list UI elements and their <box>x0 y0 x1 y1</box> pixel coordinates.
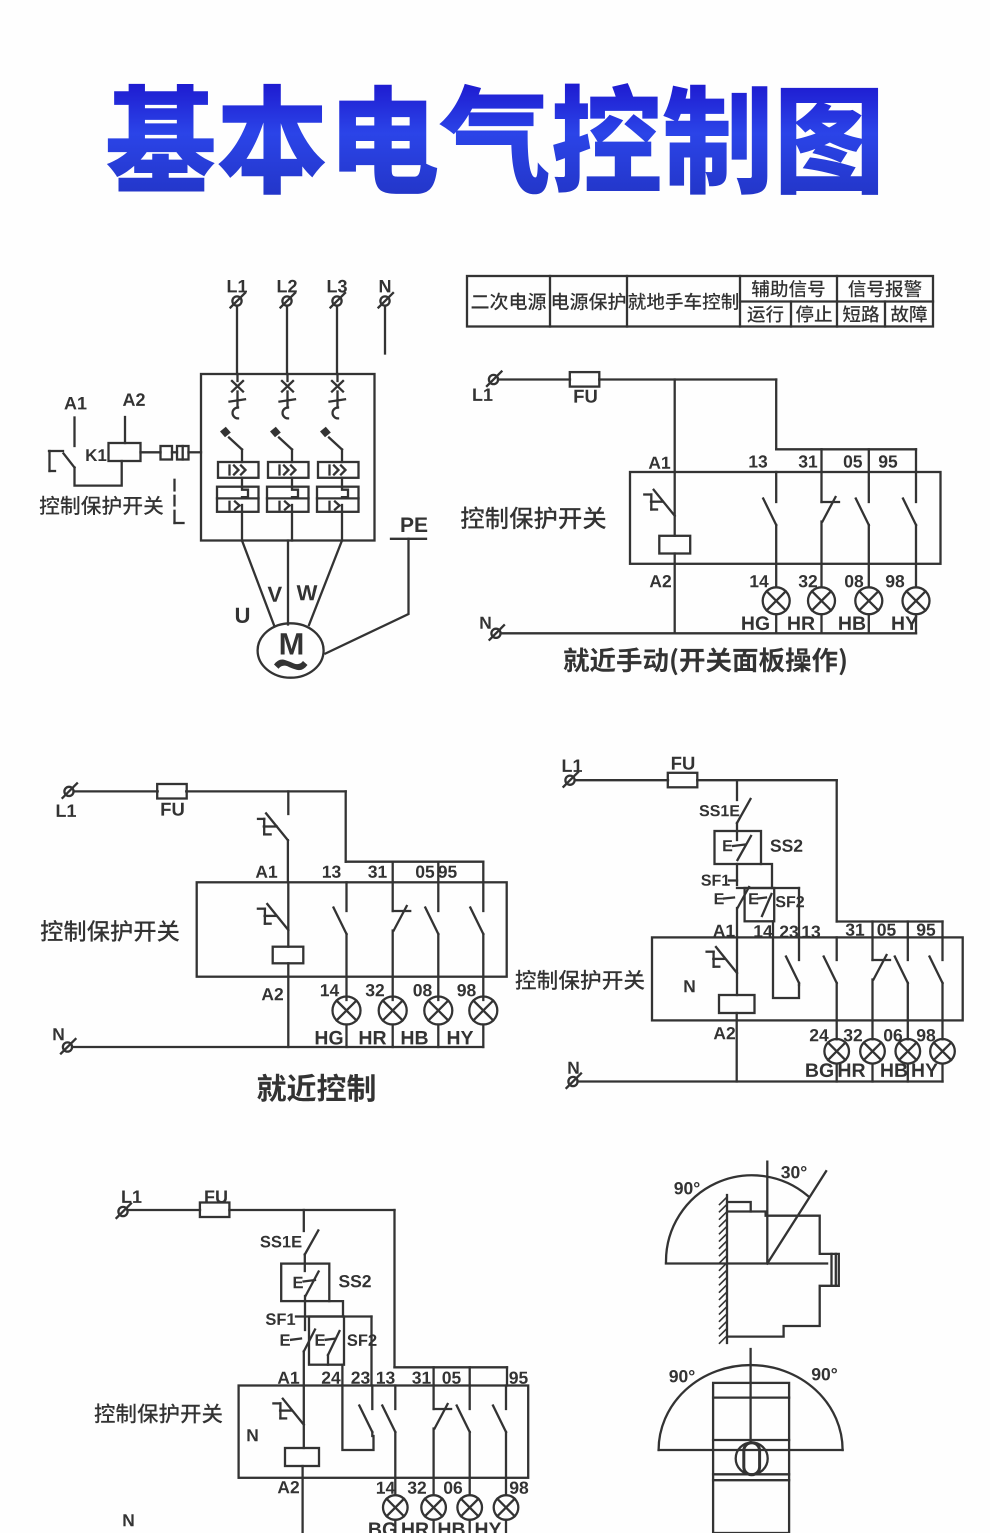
label 13 (local) <box>323 866 341 878</box>
caption 就近手动(开关面板操作) <box>564 647 846 675</box>
label BG (remote) <box>369 1522 396 1533</box>
isolator tick L1 <box>230 399 246 401</box>
wire corner drop to rail <box>775 380 777 450</box>
fuse FU (manual ckt) <box>570 372 600 387</box>
wire L1 to fuse (local) <box>74 790 158 792</box>
wire 23 drop (remote) <box>370 1317 372 1386</box>
breaker contact X L3 <box>332 381 343 392</box>
arc dome (front view) <box>659 1365 843 1450</box>
contact 95-98 (local) <box>470 882 483 1000</box>
table cell 二次电源 <box>472 293 546 311</box>
contact 31-32 <box>822 472 840 587</box>
wire rail stub 31 <box>820 449 822 472</box>
wire L1 to fuse (panel) <box>575 779 668 781</box>
lamp BG (panel) <box>824 1039 849 1064</box>
table cell 电源保护 <box>553 293 625 311</box>
label 31 (local) <box>368 866 387 878</box>
lamp HY (panel) <box>930 1039 955 1064</box>
switch SF1 (panel) <box>715 887 749 908</box>
motor M <box>258 623 324 677</box>
label 31 (panel) <box>846 924 865 936</box>
manual isolating switch (local) <box>258 813 288 840</box>
terminal L3 <box>331 293 346 308</box>
overcurrent release box I&gt;&gt; L2 <box>268 462 309 478</box>
contact 13-24 (panel) <box>824 937 837 1039</box>
contact 05-06 (panel) <box>895 937 908 1039</box>
control box (manual ckt) <box>630 472 941 564</box>
label 13 <box>749 455 767 467</box>
knob circle (front view) <box>736 1443 768 1475</box>
wire A1 in box <box>674 472 676 536</box>
wire pole L1 mid <box>241 478 243 487</box>
label 14 (remote) <box>377 1482 395 1494</box>
wire coil to A2 <box>674 554 676 634</box>
label N in box (panel) <box>684 980 694 992</box>
label E in SS2 (panel) <box>723 840 732 851</box>
wire pole L2 entry <box>286 374 288 381</box>
wire L1 to fuse <box>498 378 570 380</box>
thermal/overload release box L3 <box>317 487 359 512</box>
label 95 (panel) <box>917 924 935 936</box>
label FU (remote) <box>205 1191 227 1204</box>
arc 90-degree travel (side view) <box>666 1175 808 1261</box>
wire body line 4 (front view) <box>713 1479 789 1481</box>
handle body (front view) <box>713 1383 789 1533</box>
label HB (panel) <box>881 1064 907 1077</box>
wire rail stub 31 (panel) <box>871 922 873 938</box>
label N <box>380 280 391 292</box>
mounting wall hatched <box>720 1195 728 1343</box>
lamp HR (local) <box>379 997 407 1025</box>
wire rail stub 31 (local) <box>392 862 394 883</box>
wire lamp HY to N <box>915 614 917 633</box>
wire coil to plug <box>141 451 161 453</box>
knob slot (front view) <box>744 1443 760 1475</box>
label 95 (local) <box>438 866 456 878</box>
contact 95-98 (panel) <box>930 937 943 1039</box>
wire corner drop (remote) <box>393 1210 395 1367</box>
lamp HG <box>763 587 790 614</box>
wire 30deg line <box>767 1171 826 1263</box>
caption 就近控制 <box>257 1074 374 1102</box>
terminal L1 (remote) <box>117 1204 132 1219</box>
coil K (remote) <box>285 1448 319 1466</box>
switch box SF2 (panel) <box>745 888 775 921</box>
wire A1 in box (remote) <box>303 1386 305 1449</box>
wire fuse to corner <box>599 378 776 380</box>
label PE <box>401 518 427 533</box>
label 14 (local) <box>321 984 339 996</box>
trip linkage arrow L3 <box>320 427 342 462</box>
lamp HR (remote) <box>421 1495 446 1520</box>
contact 95-98 <box>903 472 916 587</box>
wire coil to A2 (panel) <box>736 1013 738 1082</box>
hook contact L2 <box>283 400 288 418</box>
fuse FU (local) <box>157 784 187 799</box>
label L1 (remote ckt) <box>122 1191 141 1203</box>
label 31 <box>799 455 818 467</box>
wire fuse to corner (local) <box>186 790 346 792</box>
wire 24-23 U loop (remote) <box>342 1386 373 1451</box>
lamp HB <box>855 587 882 614</box>
lamp HB (remote) <box>457 1495 482 1520</box>
label SS2 (panel) <box>771 840 803 852</box>
label 24 (remote) <box>322 1372 341 1384</box>
label 08 (local) <box>414 984 432 996</box>
terminal N <box>379 293 394 308</box>
label HB <box>839 617 865 630</box>
label SF1 (remote) <box>266 1313 295 1325</box>
label HR (panel) <box>839 1064 866 1077</box>
label 06 (remote) <box>444 1482 462 1494</box>
table cell 辅助信号 <box>752 280 825 297</box>
wire rail stub 95 (local) <box>482 862 484 883</box>
label N (manual ckt) <box>480 617 490 629</box>
fuse FU (remote) <box>200 1203 230 1218</box>
wire body line 2 (front view) <box>713 1439 789 1441</box>
wire body line 1 (front view) <box>713 1396 789 1398</box>
wire aux rail (panel) <box>837 920 943 922</box>
wire SS2 to SF1 (remote) <box>304 1296 306 1330</box>
table cell 停止 <box>796 305 832 322</box>
label 95 (remote) <box>509 1372 527 1384</box>
wire corner drop (local) <box>345 791 347 861</box>
wire N drop <box>384 306 386 354</box>
label L2 <box>278 280 297 293</box>
wire lamp HY stub (local) <box>482 1025 484 1048</box>
wire lamp HR stub (panel) <box>871 1064 873 1082</box>
mechanical link dashed <box>175 480 184 523</box>
label A1 (local) <box>256 866 277 878</box>
label 30deg <box>781 1166 806 1178</box>
wire aux rail (remote) <box>395 1366 508 1368</box>
label 23 (panel) <box>780 926 798 938</box>
table cell 故障 <box>891 305 927 322</box>
breaker contact X L2 <box>282 381 293 392</box>
wire pole L3 entry <box>336 374 338 381</box>
wire SS2 bypass step (remote) <box>329 1301 343 1316</box>
label 14 <box>750 575 768 587</box>
wire SS feeder (panel) <box>736 780 738 800</box>
wire SS1E to SS2 (remote) <box>304 1255 306 1272</box>
wire N rail (local) <box>72 1046 483 1048</box>
wire SS2 bypass step (panel) <box>761 864 772 888</box>
wire SF2 top link (panel) <box>737 887 799 889</box>
label HR (local) <box>360 1031 387 1044</box>
wire N rail (panel) <box>578 1080 943 1082</box>
wire L2 drop <box>286 306 288 374</box>
terminal L1 (manual ckt) <box>487 372 502 387</box>
wire lamp BG stub (remote) <box>394 1520 396 1533</box>
label A1 <box>64 397 86 409</box>
label 98 <box>886 575 904 587</box>
label L1 (local ckt) <box>57 805 76 817</box>
lamp HY (remote) <box>494 1495 519 1520</box>
hook contact L3 <box>333 400 338 418</box>
thermal/overload release box L2 <box>267 487 309 512</box>
label W <box>297 585 318 600</box>
wire dome chord (front view) <box>659 1449 843 1451</box>
terminal L1 (local ckt) <box>63 783 78 798</box>
wire 14 drop (panel) <box>772 921 774 937</box>
table cell 短路 <box>843 305 879 322</box>
wire lamp HG stub (local) <box>345 1025 347 1048</box>
label 23 (remote) <box>351 1372 369 1384</box>
label HY (remote) <box>476 1523 501 1533</box>
label SF2 (panel) <box>776 896 804 907</box>
control box (panel) <box>652 937 963 1020</box>
label 控制保护开关 top-left <box>40 496 164 515</box>
label 24 (panel) <box>810 1029 829 1041</box>
wire rail stub 31 (remote) <box>432 1367 434 1385</box>
wire PE bar <box>391 538 426 540</box>
manual switch (panel) <box>707 947 737 973</box>
label HY (local) <box>448 1031 473 1044</box>
label 控制保护开关 (local) <box>41 920 179 942</box>
wire pole L2 mid <box>291 478 293 487</box>
manual switch (remote) <box>273 1399 303 1425</box>
wire body line 3 (front view) <box>713 1473 789 1475</box>
label A2 (local) <box>262 988 283 1000</box>
wire A1 in box (local) <box>287 882 289 946</box>
contact 13-14 (remote) <box>382 1386 395 1496</box>
wire A1 feeder drop <box>674 380 676 473</box>
label A2 (panel) <box>714 1027 735 1039</box>
wire pole L3 mid <box>341 478 343 487</box>
lamp HG (local) <box>333 997 361 1025</box>
contact 05-06 (remote) <box>457 1386 470 1496</box>
terminal N (local) <box>61 1039 76 1054</box>
switch box SF2 (remote) <box>309 1317 344 1365</box>
label 90deg right (front view) <box>812 1368 837 1380</box>
label N (local) <box>53 1028 63 1040</box>
wire aux rail (local) <box>346 861 484 863</box>
switch box SS2 (remote) <box>281 1264 329 1302</box>
label 32 (panel) <box>844 1029 862 1041</box>
trip switch K1 actuator <box>49 451 63 471</box>
table cell 信号报警 <box>848 280 921 297</box>
fuse FU (panel) <box>668 773 698 788</box>
wire A1 feeder (local) <box>287 791 289 814</box>
switch SF2 (remote) <box>316 1331 340 1365</box>
label 95 <box>879 455 897 467</box>
wire SS2 to SF1 (panel) <box>736 864 738 885</box>
label FU (manual ckt) <box>574 390 596 403</box>
contact 23 (remote) <box>359 1386 372 1437</box>
wire K1 loop <box>75 461 122 486</box>
label HB (local) <box>402 1031 428 1044</box>
isolator tick L3 <box>330 399 346 401</box>
label L3 <box>328 280 347 293</box>
wire fuse to corner (panel) <box>697 779 837 781</box>
wire rail stub 05 (panel) <box>907 922 909 938</box>
terminal L2 <box>281 293 296 308</box>
lamp BG (remote) <box>383 1495 408 1520</box>
lamp HR <box>808 587 835 614</box>
wire SF2 top link (remote) <box>296 1315 372 1317</box>
wire SF1 tick (panel) <box>729 879 737 881</box>
switch SF2 (panel) <box>749 893 771 916</box>
label 32 (remote) <box>408 1482 426 1494</box>
wire L3 drop <box>336 306 338 374</box>
label HY (panel) <box>912 1064 937 1077</box>
label SF2 (remote) <box>347 1334 376 1346</box>
label 06 (panel) <box>884 1029 902 1041</box>
wire lamp HY stub (remote) <box>505 1520 507 1533</box>
switch box SS2 (panel) <box>715 831 762 864</box>
label A2 <box>123 393 145 406</box>
wire pole L1 entry <box>236 374 238 381</box>
wire L1 to fuse (remote) <box>128 1209 201 1211</box>
wire lamp HR stub (remote) <box>432 1520 434 1533</box>
wire coil to A2 (remote) <box>301 1466 303 1533</box>
wire SS feeder (remote) <box>303 1210 305 1231</box>
lamp HY (local) <box>469 997 497 1025</box>
wire lamp HY stub (panel) <box>941 1064 943 1082</box>
control box (local) <box>197 882 507 976</box>
thermal/overload release box L1 <box>217 487 259 512</box>
contact 13-14 <box>763 472 776 587</box>
label 90deg (side view) <box>674 1182 699 1194</box>
label N in box (remote) <box>247 1429 257 1441</box>
label 13 (remote) <box>377 1372 395 1384</box>
wire 14-23 U loop (panel) <box>773 937 799 998</box>
label SS2 (remote) <box>339 1275 371 1287</box>
label HR (remote) <box>402 1523 429 1533</box>
label K1 <box>86 449 106 461</box>
overcurrent release box I&gt;&gt; L3 <box>318 462 359 478</box>
label 13 (panel) <box>802 926 820 938</box>
isolator tick L2 <box>280 399 296 401</box>
control box (remote) <box>239 1386 529 1478</box>
label 90deg left (front view) <box>669 1370 694 1382</box>
wire lamp BG stub (panel) <box>836 1064 838 1082</box>
label 05 (panel) <box>878 924 896 936</box>
label 05 <box>844 455 862 467</box>
wire motor V <box>287 541 289 625</box>
coil K (manual ckt) <box>659 536 690 554</box>
trip switch K1 blade <box>64 454 75 468</box>
lamp HR (panel) <box>860 1039 885 1064</box>
wire L1 drop <box>236 306 238 374</box>
table cell 运行 <box>748 305 784 322</box>
wire N rail (manual ckt) <box>501 632 917 634</box>
title 基本电气控制图 <box>107 83 878 195</box>
label 05 (remote) <box>443 1372 461 1384</box>
contact 05-08 <box>856 472 869 587</box>
label HB (remote) <box>439 1523 465 1533</box>
label 32 <box>799 575 817 587</box>
wire motor W <box>309 541 342 626</box>
coil K1 <box>109 443 141 461</box>
contact 31-32 (remote) <box>434 1386 452 1496</box>
connector plug symbol <box>161 446 202 460</box>
wire A1 in box (panel) <box>736 937 738 995</box>
breaker box <box>201 374 375 541</box>
wire centerline (side view) <box>766 1162 768 1264</box>
label FU (local) <box>161 803 183 816</box>
wire rail stub 95 (panel) <box>941 922 943 938</box>
label U <box>236 608 249 623</box>
label 控制保护开关 (manual ckt) <box>461 507 606 530</box>
lamp HY <box>903 587 930 614</box>
label HG <box>742 616 769 630</box>
wire fuse to corner (remote) <box>229 1209 394 1211</box>
coil K (local) <box>273 947 304 964</box>
wire corner drop (panel) <box>836 780 838 921</box>
wire lamp HR to N <box>820 614 822 633</box>
contact 31-32 (local) <box>393 882 411 1000</box>
manual switch (manual ckt) <box>644 490 674 516</box>
label 98 (panel) <box>917 1029 935 1041</box>
wire lamp HB to N <box>868 614 870 633</box>
terminal N (panel) <box>567 1074 582 1089</box>
wire aux rail <box>776 448 916 450</box>
contact 23 (panel) <box>786 937 799 985</box>
contact 31-32 (panel) <box>873 937 891 1039</box>
table cell 就地手车控制 <box>628 293 738 311</box>
coil K (panel) <box>719 995 755 1013</box>
label BG (panel) <box>806 1063 833 1077</box>
wire pole L1 <box>236 392 238 401</box>
switch SS2 (remote) <box>294 1272 319 1297</box>
label L1 (panel ckt) <box>563 760 582 772</box>
wire SF1 to A1 (remote) <box>303 1352 305 1386</box>
switch SS2 blade (panel) <box>733 836 751 860</box>
handle profile outline (side view) <box>729 1202 839 1337</box>
wire pole L3 <box>336 392 338 401</box>
label A1 (panel) <box>713 925 734 937</box>
wire coil to A2 (local) <box>287 963 289 1047</box>
wire pole L2 exit <box>291 512 293 541</box>
wire SF1 to A1 (panel) <box>736 908 738 937</box>
lamp HB (local) <box>424 997 452 1025</box>
wire switch to box (local) <box>287 840 289 882</box>
wire pole L3 exit <box>341 512 343 541</box>
breaker contact X L1 <box>232 381 243 392</box>
terminal L1 <box>231 293 246 308</box>
wire SS1E to SS2 (panel) <box>736 823 738 840</box>
wire PE to motor <box>326 539 409 654</box>
switch SS1E (remote) <box>305 1231 319 1255</box>
hook contact L1 <box>233 400 238 418</box>
wire rail stub 05 (local) <box>437 862 439 883</box>
wire A1 drop <box>73 418 75 447</box>
label 31 (remote) <box>412 1372 431 1384</box>
overcurrent release box I&gt;&gt; L1 <box>218 462 259 478</box>
label 98 (local) <box>457 984 475 996</box>
label A2 (remote) <box>278 1481 299 1493</box>
wire lamp HB stub (remote) <box>469 1520 471 1533</box>
wire pole L1 exit <box>241 512 243 541</box>
label HY <box>892 617 917 630</box>
label V <box>268 587 282 602</box>
wire lamp HR stub (local) <box>392 1025 394 1048</box>
label 14 (panel) <box>754 925 772 937</box>
wire lamp HB stub (panel) <box>907 1064 909 1082</box>
label HG (local) <box>316 1031 343 1045</box>
label 98 (remote) <box>510 1482 528 1494</box>
label HR <box>788 617 815 630</box>
wire 23 drop (panel) <box>798 888 800 937</box>
trip linkage arrow L2 <box>270 427 292 462</box>
label 32 (local) <box>366 984 384 996</box>
label A1 (manual ckt) <box>649 457 670 469</box>
wire rail stub 05 (remote) <box>469 1367 471 1385</box>
label L1 (manual ckt) <box>473 389 492 401</box>
contact 95-98 (remote) <box>493 1386 506 1496</box>
wire 24 drop (remote) <box>341 1365 343 1386</box>
